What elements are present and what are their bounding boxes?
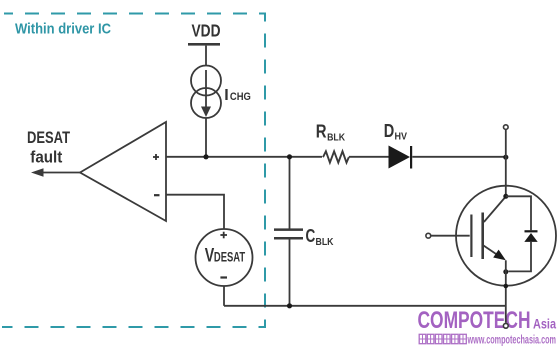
svg-text:DESAT: DESAT — [27, 128, 70, 147]
svg-text:BLK: BLK — [327, 132, 345, 143]
svg-text:www.compotechasia.com: www.compotechasia.com — [467, 335, 556, 347]
svg-text:I: I — [224, 87, 228, 104]
svg-text:DESAT: DESAT — [214, 249, 246, 264]
svg-text:C: C — [306, 225, 316, 246]
svg-text:BLK: BLK — [316, 237, 334, 248]
svg-text:Asia: Asia — [533, 316, 556, 332]
svg-text:HV: HV — [395, 132, 408, 143]
svg-text:D: D — [384, 120, 395, 141]
svg-text:R: R — [316, 121, 327, 142]
svg-text:fault: fault — [30, 147, 62, 166]
svg-text:CHG: CHG — [230, 91, 251, 103]
svg-text:Within driver IC: Within driver IC — [15, 21, 111, 38]
svg-text:COMPOTECH: COMPOTECH — [418, 307, 531, 334]
svg-text:VDD: VDD — [192, 20, 221, 40]
